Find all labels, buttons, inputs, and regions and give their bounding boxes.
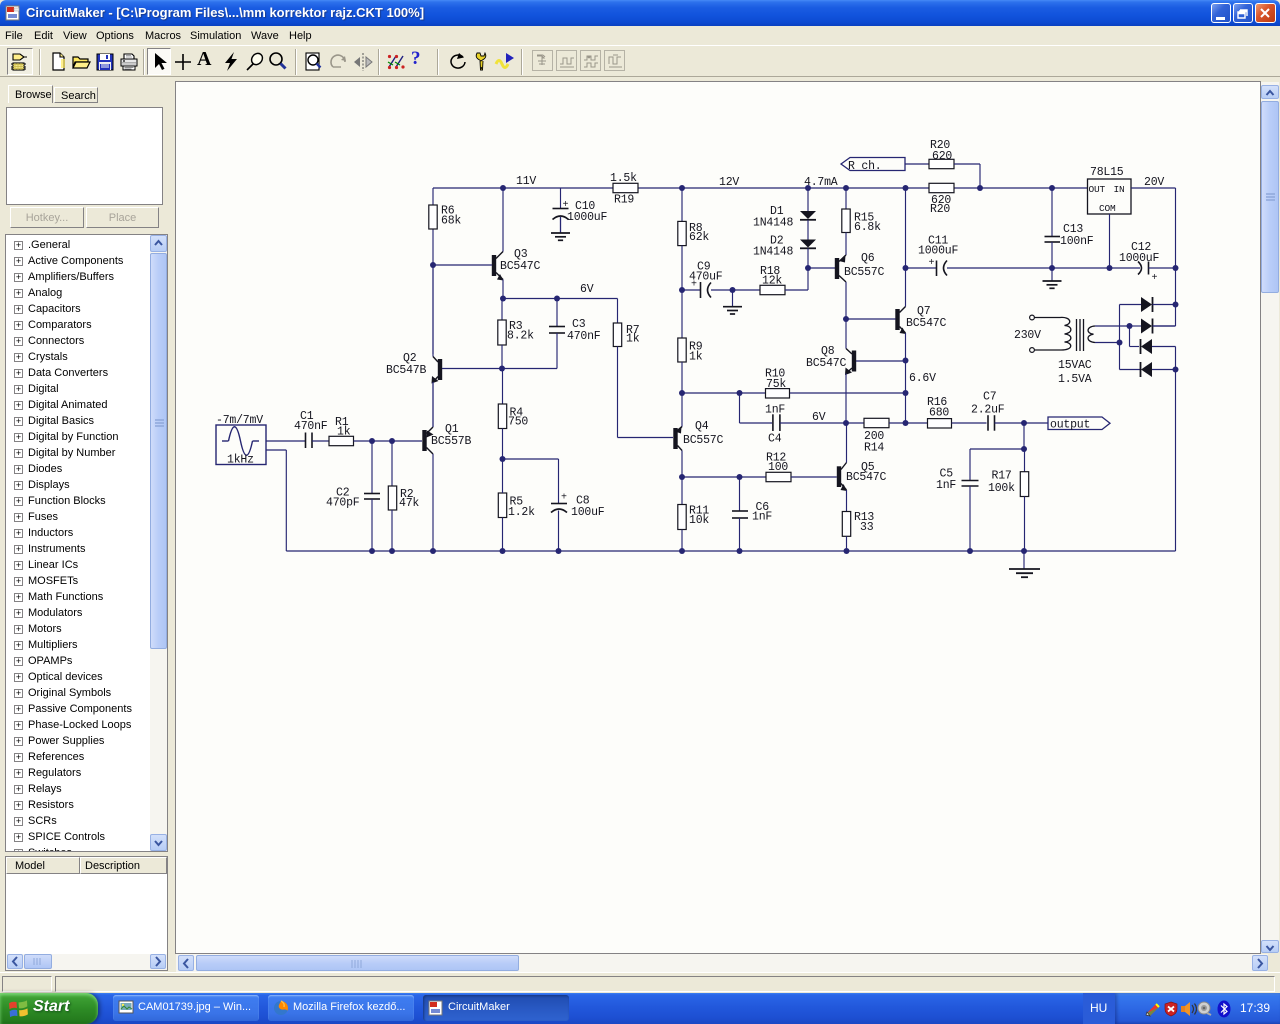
capacitor C10 — [560, 188, 562, 209]
svg-text:20V: 20V — [1144, 176, 1164, 189]
resistor R2 — [391, 441, 393, 486]
left panel — [0, 80, 176, 972]
wire Q6 base — [808, 267, 835, 269]
capacitor C6 — [739, 477, 741, 511]
status bar — [0, 972, 1280, 993]
capacitor C7 — [987, 415, 989, 431]
wire 78L15 COM — [1109, 214, 1111, 268]
diode D1 — [807, 188, 809, 211]
language — [1083, 993, 1115, 1024]
svg-text:BC547C: BC547C — [906, 317, 947, 330]
svg-text:470nF: 470nF — [294, 420, 328, 433]
window buttons — [1211, 3, 1231, 23]
wire R20 to rail — [954, 163, 980, 165]
wire 0V row — [1052, 267, 1110, 269]
node Q8 base junction — [903, 358, 909, 364]
wire to C11 — [905, 188, 907, 268]
node C12 right junction — [1173, 265, 1179, 271]
node 12V/Q7 junction — [903, 185, 909, 191]
resistor R8 — [681, 188, 683, 221]
tray — [1115, 993, 1280, 1024]
diode BR1 — [1120, 304, 1142, 306]
svg-text:1nF: 1nF — [752, 511, 772, 524]
h scrollbar — [6, 954, 167, 970]
resistor R17 — [1024, 449, 1026, 472]
svg-text:BC557C: BC557C — [683, 434, 724, 447]
wire Q2 base — [442, 368, 502, 370]
transistor Q8 — [852, 351, 856, 372]
svg-text:1.2k: 1.2k — [508, 506, 535, 519]
svg-text:1000uF: 1000uF — [567, 211, 608, 224]
svg-text:Q4: Q4 — [695, 420, 709, 433]
svg-text:47k: 47k — [399, 497, 419, 510]
capacitor C1 — [305, 433, 307, 449]
wire R12 row — [682, 476, 740, 478]
wire Q6 collector — [845, 282, 847, 319]
svg-text:1k: 1k — [689, 351, 703, 364]
node Q3 emitter junction — [500, 296, 506, 302]
node R14/R16 junction — [903, 420, 909, 426]
wire Q2 collector — [432, 265, 434, 357]
diode BR3 — [1141, 339, 1152, 354]
tabs — [8, 85, 53, 103]
node C13 bottom junction — [1049, 265, 1055, 271]
wire Q5 emitter — [846, 490, 848, 512]
svg-text:R17: R17 — [992, 470, 1012, 483]
node R2 junction — [389, 438, 395, 444]
svg-text:BC557C: BC557C — [844, 266, 885, 279]
capacitor C3 — [556, 299, 558, 327]
svg-text:6.8k: 6.8k — [854, 221, 881, 234]
wire R10 left — [682, 392, 766, 394]
node Q6 base junction — [805, 265, 811, 271]
svg-text:470uF: 470uF — [689, 271, 723, 284]
wire Q2 emitter — [432, 382, 434, 427]
svg-text:BC547C: BC547C — [806, 357, 847, 370]
svg-text:+: + — [563, 200, 569, 211]
node R4/R5 junction — [500, 456, 506, 462]
wire D1-D2 — [807, 220, 809, 240]
svg-text:11V: 11V — [516, 175, 536, 188]
wire secondary tap2 — [1095, 342, 1120, 344]
svg-text:R19: R19 — [614, 194, 634, 207]
wire R10 right — [790, 392, 906, 394]
node Q3 base junction — [430, 262, 436, 268]
svg-text:6V: 6V — [812, 411, 826, 424]
wire Q4 collector — [681, 451, 683, 478]
node tap2 junction — [1117, 340, 1123, 346]
svg-text:1.5k: 1.5k — [610, 172, 637, 185]
wire R7 to Q4 base — [617, 347, 619, 438]
transistor Q2 — [438, 359, 442, 380]
capacitor C12 — [1110, 267, 1141, 269]
wire Q8 emitter — [845, 374, 847, 423]
menu bar — [0, 26, 1280, 45]
wire Q7 base — [846, 318, 896, 320]
svg-text:68k: 68k — [441, 215, 461, 228]
node C9 junction — [679, 287, 685, 293]
node Q8 emitter junction — [843, 420, 849, 426]
node C4 junction — [737, 390, 743, 396]
node Q2 base junction — [499, 366, 505, 372]
svg-text:620: 620 — [932, 150, 952, 163]
svg-text:12V: 12V — [719, 176, 739, 189]
diode D2 — [800, 240, 816, 248]
node Q6/Q7/Q8 junction — [843, 316, 849, 322]
wire R12 to Q5 — [791, 476, 837, 478]
node R15 top junction — [843, 185, 849, 191]
svg-text:R ch.: R ch. — [848, 160, 882, 173]
resistor R1 — [329, 436, 354, 445]
wire C1 to R1 — [312, 440, 329, 442]
node rail junctions — [369, 548, 375, 554]
capacitor C9 — [682, 289, 701, 291]
wire Q1 collector — [432, 454, 434, 551]
svg-text:2.2uF: 2.2uF — [971, 404, 1005, 417]
capacitor C5 — [962, 480, 979, 482]
resistor R4 — [502, 369, 504, 405]
svg-text:1.5VA: 1.5VA — [1058, 373, 1092, 386]
wire Q4 emitter — [681, 393, 683, 427]
svg-text:COM: COM — [1099, 203, 1116, 214]
node BR4 anode junction — [1173, 367, 1179, 373]
ground at C9 — [732, 290, 734, 307]
svg-text:output: output — [1050, 419, 1090, 432]
resistor R5 — [498, 493, 506, 518]
node C13 junction — [1049, 185, 1055, 191]
resistor R9 — [681, 290, 683, 338]
wire C4 to Q8 — [780, 422, 846, 424]
capacitor C4 — [739, 393, 741, 423]
node R9/R10 junction — [679, 390, 685, 396]
svg-text:1nF: 1nF — [765, 404, 785, 417]
wire Q7 collector — [905, 268, 907, 307]
wire bridge left rail — [1119, 305, 1121, 370]
wire 11V/12V top rail — [433, 187, 613, 189]
svg-text:BC547C: BC547C — [846, 471, 887, 484]
node C3 top junction — [554, 296, 560, 302]
buttons — [10, 207, 84, 228]
svg-text:+: + — [929, 258, 935, 269]
wire 6.6V rail — [905, 361, 907, 424]
canvas — [175, 81, 1261, 954]
svg-text:680: 680 — [929, 407, 949, 420]
svg-text:6.6V: 6.6V — [909, 372, 936, 385]
svg-text:-7m/7mV: -7m/7mV — [216, 414, 263, 427]
node R17 top junction — [1021, 446, 1027, 452]
wire secondary tap1 — [1095, 325, 1130, 327]
wire output to C5 — [1023, 423, 1025, 449]
task buttons — [113, 995, 259, 1021]
svg-text:62k: 62k — [689, 231, 709, 244]
wire Q3 base — [433, 264, 492, 266]
transistor Q4 — [673, 428, 677, 449]
transistor Q5 — [837, 466, 841, 487]
node Q4 collector junction — [679, 474, 685, 480]
ground at C13 — [1051, 268, 1053, 281]
node R8 top junction — [679, 185, 685, 191]
wire left rail — [432, 188, 434, 205]
resistor R16 — [906, 422, 928, 424]
wire source output — [266, 440, 306, 442]
svg-text:1kHz: 1kHz — [227, 454, 254, 467]
svg-text:1000uF: 1000uF — [918, 245, 959, 258]
canvas vertical scrollbar — [1261, 82, 1279, 953]
svg-text:1N4148: 1N4148 — [753, 246, 794, 259]
transistor Q1 — [422, 430, 426, 451]
svg-text:+: + — [1152, 273, 1158, 284]
svg-text:BC547C: BC547C — [500, 260, 541, 273]
taskbar — [0, 993, 1280, 1024]
capacitor C11 — [906, 267, 937, 269]
svg-text:Q6: Q6 — [861, 252, 875, 265]
toolbar — [0, 45, 1280, 77]
tree list — [5, 234, 168, 852]
resistor R11 — [681, 477, 683, 505]
svg-text:470nF: 470nF — [567, 330, 601, 343]
wire source return — [266, 449, 286, 451]
svg-text:75k: 75k — [766, 378, 786, 391]
node tap1 junction — [1127, 323, 1133, 329]
svg-text:8.2k: 8.2k — [507, 330, 534, 343]
tree scrollbar — [150, 235, 167, 851]
transistor Q6 — [835, 258, 839, 279]
resistor R14 — [846, 422, 864, 424]
app icon — [5, 5, 21, 21]
node C6 junction — [737, 474, 743, 480]
node COM junction — [1107, 265, 1113, 271]
svg-text:100uF: 100uF — [571, 506, 605, 519]
flag R ch. — [841, 158, 905, 171]
resistor R6 — [429, 205, 437, 229]
svg-text:BC557B: BC557B — [431, 435, 472, 448]
wire Q3 emitter — [502, 280, 504, 299]
svg-text:12k: 12k — [762, 275, 782, 288]
svg-text:100nF: 100nF — [1060, 235, 1094, 248]
wire R1 to Q1 — [354, 440, 423, 442]
svg-text:IN: IN — [1114, 184, 1125, 195]
resistor R18 — [733, 289, 761, 291]
svg-text:R20: R20 — [930, 203, 950, 216]
capacitor C2 — [371, 441, 373, 494]
resistor R13 — [842, 512, 850, 537]
svg-text:C4: C4 — [768, 433, 782, 446]
svg-text:OUT: OUT — [1089, 184, 1106, 195]
wire Q8 base — [856, 360, 906, 362]
resistor R12 — [766, 472, 791, 481]
wire tap1 drop — [1129, 326, 1131, 347]
wire bottom rail — [286, 550, 1175, 552]
resistor R10 — [766, 389, 790, 398]
svg-text:BC547B: BC547B — [386, 364, 427, 377]
node R10 right junction — [903, 390, 909, 396]
resistor R20 lower — [929, 183, 954, 192]
resistor R7 — [613, 323, 621, 347]
capacitor C13 — [1051, 188, 1053, 237]
resistor R15 — [845, 188, 847, 209]
svg-text:100: 100 — [768, 461, 788, 474]
wire Q5 collector — [846, 423, 848, 463]
svg-text:1k: 1k — [626, 333, 640, 346]
node BR1 cathode junction — [1173, 302, 1179, 308]
svg-text:1k: 1k — [337, 426, 351, 439]
node D1 top junction — [805, 185, 811, 191]
svg-text:1000uF: 1000uF — [1119, 252, 1160, 265]
wire flag to R20 — [905, 163, 929, 165]
node C9/R18 junction — [730, 287, 736, 293]
preview box — [6, 107, 163, 205]
wire Q3 collector — [502, 188, 504, 252]
svg-text:+: + — [561, 493, 567, 504]
diode BR2 — [1130, 325, 1142, 327]
svg-text:6V: 6V — [580, 283, 594, 296]
capacitor C8 — [551, 503, 567, 505]
svg-text:1N4148: 1N4148 — [753, 217, 794, 230]
resistor R19 — [613, 183, 638, 192]
wire ground right rail — [1175, 347, 1177, 552]
svg-text:1nF: 1nF — [936, 479, 956, 492]
source V1 sine generator — [216, 425, 266, 465]
svg-text:10k: 10k — [689, 514, 709, 527]
svg-text:33: 33 — [860, 521, 874, 534]
svg-text:78L15: 78L15 — [1090, 166, 1124, 179]
node C11 junction — [903, 265, 909, 271]
resistor R3 — [501, 299, 503, 321]
diode BR4 — [1120, 369, 1141, 371]
svg-text:R14: R14 — [864, 442, 884, 455]
wire Q1 emitter — [432, 382, 434, 427]
resistor R20 upper — [929, 159, 954, 168]
svg-text:C7: C7 — [983, 391, 996, 404]
wire D2 to base node — [807, 248, 809, 268]
ground main — [1023, 551, 1025, 569]
wire R4 to C8 — [503, 458, 559, 460]
title bar — [0, 0, 1280, 26]
svg-text:470pF: 470pF — [326, 497, 360, 510]
wire 6V node — [503, 298, 618, 300]
flag output — [1048, 417, 1110, 430]
start button — [0, 993, 98, 1024]
node Q3 collector junction — [500, 185, 506, 191]
model/description — [5, 856, 168, 971]
transistor Q3 — [492, 255, 496, 276]
node C2 junction — [369, 438, 375, 444]
node R20 junction — [977, 185, 983, 191]
wire 20V right rail — [1175, 188, 1177, 326]
node output junction — [1021, 420, 1027, 426]
canvas horizontal scrollbar — [176, 954, 1268, 972]
wire 78L15 IN — [1131, 187, 1176, 189]
svg-text:15VAC: 15VAC — [1058, 359, 1092, 372]
svg-text:100k: 100k — [988, 482, 1015, 495]
transistor Q7 — [895, 309, 899, 330]
wire Q7 emitter — [905, 333, 907, 361]
ground below C10 — [551, 232, 570, 234]
wire Q8 collector — [845, 319, 847, 349]
transformer T1 — [1030, 315, 1035, 320]
regulator U1 78L15 — [1088, 179, 1132, 214]
svg-text:230V: 230V — [1014, 329, 1041, 342]
svg-text:750: 750 — [508, 416, 528, 429]
